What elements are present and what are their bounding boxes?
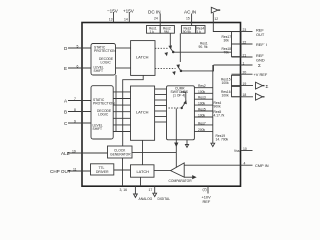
switch S2	[173, 65, 182, 74]
svg-text:100k: 100k	[198, 102, 206, 106]
digital ground pin	[153, 186, 157, 196]
pin 19 buffered output stub	[232, 85, 254, 87]
svg-text:8: 8	[74, 108, 76, 112]
svg-text:14: 14	[124, 18, 128, 22]
svg-text:Σ: Σ	[266, 84, 269, 89]
svg-text:+15V: +15V	[123, 9, 135, 14]
input pin C wire	[68, 122, 91, 124]
svg-text:COMPARATOR: COMPARATOR	[169, 179, 193, 183]
buffer amp U8	[256, 93, 265, 100]
outer chip boundary box	[82, 23, 241, 187]
svg-text:LATCH: LATCH	[136, 55, 149, 60]
svg-text:LATCH: LATCH	[136, 110, 149, 115]
svg-text:LATCH: LATCH	[137, 169, 150, 174]
resistor R17 30k	[232, 32, 242, 44]
wire U2 to U4 row E	[116, 67, 131, 69]
wire S1 pivot to internal rail	[173, 51, 231, 53]
pin 1 sigma stub	[214, 64, 253, 66]
wire U11 to comparator output	[154, 170, 171, 172]
svg-text:100k: 100k	[222, 93, 230, 97]
svg-text:200k: 200k	[198, 128, 206, 132]
pin 20 +V REF stub	[232, 73, 253, 75]
svg-text:900k: 900k	[214, 105, 222, 109]
svg-text:5: 5	[77, 44, 79, 48]
wire U2 to U4 row D	[116, 47, 131, 49]
buffer amp U7	[256, 82, 265, 89]
resistor R2 (input divider)	[160, 26, 174, 34]
input pin D wire	[68, 47, 91, 49]
svg-text:30k: 30k	[224, 39, 230, 43]
svg-text:11: 11	[73, 167, 77, 171]
svg-text:−15V: −15V	[107, 9, 119, 14]
svg-text:13: 13	[109, 18, 113, 22]
svg-text:CHP OUT: CHP OUT	[50, 169, 71, 174]
ALE pin wire	[68, 152, 108, 154]
svg-text:SHIFT: SHIFT	[93, 127, 103, 131]
ladder ground arrow	[211, 143, 215, 146]
svg-text:LOGIC: LOGIC	[98, 113, 109, 117]
svg-text:1 k: 1 k	[150, 30, 155, 34]
wire R3 bottom to switch S2 contact	[179, 33, 181, 62]
wire R2 bottom to switch S1 contact	[169, 33, 171, 46]
substrate arrow below U6	[185, 140, 188, 148]
wire S2 pivot to sigma node	[181, 65, 214, 71]
svg-text:10: 10	[243, 147, 247, 151]
svg-text:DRIVER: DRIVER	[96, 170, 109, 174]
svg-text:22: 22	[243, 40, 247, 44]
pin 4 CMP IN wire to comparator	[184, 164, 252, 166]
pin 18 buffered output stub	[232, 96, 254, 98]
svg-text:3, 16: 3, 16	[120, 188, 128, 192]
svg-text:17: 17	[149, 188, 153, 192]
svg-text:23: 23	[243, 28, 247, 32]
static protection / decode logic block U3	[91, 86, 113, 139]
latch U5	[131, 86, 155, 140]
+10V REF pin stub	[207, 186, 209, 193]
svg-text:21: 21	[243, 53, 247, 57]
AC IN input pin wire	[191, 14, 193, 26]
svg-text:9M: 9M	[164, 30, 169, 34]
buffer amp U1 (top)	[211, 7, 220, 13]
vertical feed wire from U2	[115, 75, 117, 132]
svg-text:12: 12	[214, 17, 218, 21]
svg-text:6: 6	[77, 64, 79, 68]
svg-text:ALE: ALE	[61, 151, 70, 156]
dashed latch control wire to S2	[155, 67, 176, 69]
resistor R3 (input divider)	[181, 26, 195, 34]
wire from U4 bottom down left	[123, 75, 144, 146]
svg-text:ANALOG: ANALOG	[139, 197, 153, 201]
TTL driver U10	[91, 164, 114, 175]
svg-text:REF´ I: REF´ I	[256, 42, 267, 47]
svg-text:18: 18	[243, 93, 247, 97]
svg-text:OUT: OUT	[256, 32, 265, 37]
svg-text:GND: GND	[256, 58, 265, 63]
wire clock to comparator row	[132, 152, 177, 154]
R-2R ladder wires U6 to summing rail	[194, 88, 212, 132]
svg-text:REF: REF	[203, 199, 211, 204]
supply pin -15V	[113, 13, 115, 23]
comparator U12	[171, 163, 185, 177]
comparator output stub arrow	[184, 176, 195, 179]
supply pin +15V	[128, 13, 130, 23]
svg-text:14. 700k: 14. 700k	[216, 137, 229, 141]
svg-text:+V REF: +V REF	[254, 72, 268, 77]
current switches block U6	[167, 86, 195, 140]
svg-text:24: 24	[154, 17, 158, 21]
svg-text:GENERATOR: GENERATOR	[110, 153, 131, 157]
svg-text:DIGITAL: DIGITAL	[158, 197, 171, 201]
svg-text:PROTECTION: PROTECTION	[93, 102, 115, 106]
svg-text:15: 15	[186, 17, 190, 21]
svg-text:100k: 100k	[222, 81, 230, 85]
svg-text:Res5: Res5	[198, 108, 206, 112]
resistor R4 (input divider)	[196, 26, 205, 34]
svg-text:9: 9	[74, 119, 76, 123]
svg-text:PROTECTION: PROTECTION	[94, 49, 116, 53]
wire U5 to U11	[142, 140, 144, 165]
latch U4	[131, 41, 155, 76]
static protection / decode logic block U2	[91, 44, 116, 76]
dashed latch control wire to S1	[155, 47, 168, 49]
resistor R16 100k	[232, 86, 242, 96]
input pin B wire	[68, 111, 91, 113]
svg-text:DC IN: DC IN	[148, 9, 161, 14]
input pin E wire	[68, 67, 91, 69]
svg-text:100k: 100k	[198, 90, 206, 94]
pin 23 REF OUT stub	[241, 31, 253, 33]
svg-text:(2): (2)	[203, 188, 207, 192]
svg-text:100k: 100k	[198, 113, 206, 117]
switch S1	[165, 46, 174, 55]
svg-text:Vss: Vss	[234, 149, 240, 153]
svg-text:B: B	[64, 110, 67, 115]
svg-text:70k: 70k	[224, 51, 230, 55]
svg-text:Σ: Σ	[258, 63, 261, 68]
resistor R15 100k	[232, 75, 242, 86]
analog ground pin	[134, 186, 138, 197]
svg-text:7: 7	[74, 97, 76, 101]
svg-text:Res7: Res7	[198, 121, 206, 125]
clock generator U9	[108, 146, 133, 158]
switch inside U6	[169, 92, 187, 140]
resistor R1 (input divider)	[147, 26, 161, 34]
svg-text:E: E	[64, 66, 67, 71]
svg-text:19: 19	[243, 82, 247, 86]
svg-text:LOGIC: LOGIC	[101, 61, 112, 65]
wire from U1 into box to REF OUT rail	[213, 13, 240, 32]
latch U5 to switches U6 bus wires	[155, 89, 167, 122]
summing rail wire	[212, 65, 214, 143]
svg-text:90. 9k: 90. 9k	[199, 45, 208, 49]
svg-text:1 k: 1 k	[197, 30, 202, 34]
resistor R18 70k	[232, 44, 242, 57]
svg-text:4: 4	[244, 161, 246, 165]
svg-text:Res2: Res2	[198, 84, 206, 88]
svg-text:19: 19	[72, 149, 76, 153]
wire U11 to ground rail	[140, 177, 142, 186]
svg-text:(1 OF 4): (1 OF 4)	[173, 93, 185, 97]
svg-text:4.17.7k: 4.17.7k	[214, 114, 225, 118]
svg-text:SHIFT: SHIFT	[94, 69, 104, 73]
svg-text:CMP IN: CMP IN	[255, 163, 269, 168]
input pin A wire	[68, 100, 91, 102]
svg-text:1: 1	[243, 61, 245, 65]
bus wires U3 to U5	[113, 92, 130, 132]
wire U6 to comparator with arrow	[175, 140, 178, 168]
latch U11	[131, 165, 155, 177]
svg-text:AC IN: AC IN	[184, 9, 196, 14]
svg-text:90.9k: 90.9k	[183, 30, 191, 34]
wire U10 to U11	[114, 169, 131, 171]
pin 21 REF GND stub	[232, 56, 253, 58]
DC IN input pin wire	[159, 14, 161, 26]
CHP OUT pin wire	[68, 170, 91, 172]
pin 10 Vss stub	[241, 150, 253, 152]
pin 22 REF I stub	[232, 43, 253, 45]
svg-text:20: 20	[243, 71, 247, 75]
wire clock to ground rail	[122, 158, 124, 186]
svg-text:Res3: Res3	[198, 96, 206, 100]
